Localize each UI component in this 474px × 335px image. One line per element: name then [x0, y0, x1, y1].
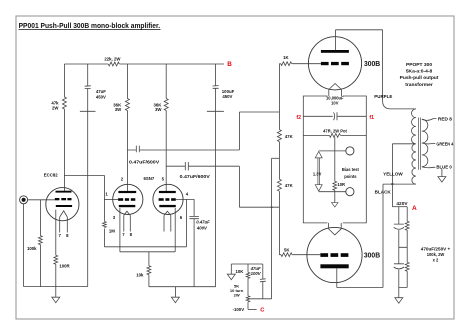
capacitor 0.47uF/600V no.2: [185, 162, 188, 170]
resistor 22k 2W: [108, 62, 119, 66]
svg-text:450V: 450V: [96, 94, 106, 99]
wire secondary ground drop: [441, 169, 443, 177]
anode bar V4: [320, 264, 348, 268]
svg-text:points: points: [344, 174, 357, 179]
svg-text:47R, 2W Pot: 47R, 2W Pot: [323, 128, 347, 133]
pin 8 V1: [66, 217, 68, 233]
svg-text:420V: 420V: [396, 201, 407, 206]
wire ECC82 anode to 47k and grid no.1: [64, 174, 104, 176]
svg-text:BLACK: BLACK: [375, 189, 392, 194]
junction primary bottom: [391, 183, 393, 185]
wire coupling no.1 riser: [239, 112, 279, 150]
primary winding: [412, 109, 416, 184]
anode bar V2a: [118, 191, 136, 193]
pin 7 V2a: [123, 215, 125, 231]
svg-text:0.47uF/600V: 0.47uF/600V: [180, 174, 210, 179]
svg-text:PURPLE: PURPLE: [374, 94, 392, 99]
junction bias crossing: [271, 206, 273, 208]
svg-text:10R: 10R: [338, 182, 346, 187]
ground wiper: [332, 203, 339, 208]
tube 6SN7 section 1 V2a: [113, 184, 143, 214]
cathode bar V2b: [159, 205, 176, 207]
resistor 5K grid stopper: [279, 254, 320, 256]
wire bias riser: [271, 158, 273, 298]
grid dashes V2a: [118, 198, 123, 201]
svg-text:5K: 5K: [284, 247, 290, 252]
tap blue 0: [422, 167, 435, 168]
test point lower: [346, 188, 354, 196]
svg-text:300B: 300B: [364, 59, 380, 68]
svg-text:100V: 100V: [251, 271, 262, 276]
svg-text:f1: f1: [369, 115, 374, 121]
svg-text:1M: 1M: [109, 228, 115, 233]
ground center: [171, 297, 179, 303]
wire coupling no.2 dropper: [239, 166, 279, 207]
capacitor 47uF 450V: [80, 86, 96, 112]
svg-text:10K: 10K: [236, 269, 245, 274]
svg-text:10k: 10k: [136, 272, 144, 277]
svg-text:47K: 47K: [285, 134, 294, 139]
grid dashes V4: [320, 253, 328, 257]
wire grid no.1: [104, 198, 118, 200]
wire 36K no.2 branch vertical: [165, 64, 167, 191]
svg-text:0.47uF/600V: 0.47uF/600V: [129, 160, 159, 165]
resistor 100R: [54, 255, 58, 264]
pin stub V2b right: [170, 215, 172, 231]
wire ground bus left: [24, 286, 88, 288]
svg-text:100k, 2W: 100k, 2W: [427, 252, 445, 257]
resistor 100k 2W lower: [405, 262, 409, 271]
svg-text:BLUE 0: BLUE 0: [436, 165, 452, 170]
anode bar V1: [56, 191, 72, 193]
wire coupling no.2: [166, 165, 239, 167]
svg-text:450V: 450V: [222, 94, 232, 99]
ground secondary: [438, 177, 446, 183]
cathode bar V1: [56, 205, 72, 207]
tube 300B lower V4: [307, 227, 362, 282]
grid dashes V1: [55, 198, 60, 200]
wire 100uF branch vertical: [215, 64, 217, 287]
svg-text:PPOPT 300: PPOPT 300: [406, 62, 432, 68]
svg-text:Bias test: Bias test: [342, 167, 360, 172]
resistor 47K upper: [277, 130, 281, 142]
svg-text:6SN7: 6SN7: [144, 176, 155, 181]
wire test point lower: [319, 191, 346, 193]
resistor 100k: [39, 200, 41, 287]
anode bar V2b: [159, 191, 176, 193]
node C -100V: [248, 308, 257, 310]
wire B+ top rail: [64, 63, 224, 65]
wire ground drop center: [174, 287, 176, 297]
filament supply box: [303, 96, 366, 223]
wire cathode pin 6 drop: [174, 208, 176, 252]
wire black primary bottom: [383, 183, 416, 185]
wire input to ECC82 grid: [28, 199, 55, 201]
wire grid pin 4: [176, 198, 194, 200]
potentiometer 5K 10 turn 2W: [246, 296, 250, 302]
svg-text:3W: 3W: [155, 107, 162, 112]
pin 8 V2a: [129, 215, 131, 231]
resistor 1K grid stopper: [279, 63, 321, 65]
wire ECC82 cathode drop: [55, 210, 57, 297]
grid dashes V3: [321, 62, 329, 65]
svg-text:47K: 47K: [285, 183, 294, 188]
resistor 10k: [147, 266, 151, 275]
bias supply top wire: [231, 263, 262, 265]
heater V1: [60, 211, 68, 217]
cathode bar V2a: [119, 205, 136, 207]
svg-text:0.47uF: 0.47uF: [196, 219, 210, 224]
wire pot wiper drop: [334, 137, 336, 202]
wire anode V4 drop: [337, 184, 383, 287]
wire 47uF branch vertical: [87, 64, 89, 287]
anode bar V3: [321, 50, 349, 53]
resistor 10R: [333, 181, 337, 190]
secondary winding: [422, 119, 428, 166]
svg-text:2W: 2W: [52, 105, 59, 110]
svg-text:PP001 Push-Pull 300B mono-bloc: PP001 Push-Pull 300B mono-block amplifie…: [19, 21, 161, 30]
svg-text:A: A: [412, 205, 417, 212]
svg-text:YELLOW: YELLOW: [383, 171, 403, 176]
filament V3: [329, 84, 342, 90]
wire bias stub: [272, 157, 280, 159]
capacitor 470uF/250V upper: [394, 224, 404, 229]
wire psu resistor rail: [406, 207, 408, 288]
test point upper: [346, 147, 354, 155]
pin 7 V1: [59, 217, 61, 233]
wire grid leak chain vertical: [278, 64, 280, 255]
grid dashes V2b: [159, 198, 164, 201]
svg-text:470uF/250V +: 470uF/250V +: [421, 247, 451, 252]
wire ground bus center: [149, 286, 216, 288]
svg-text:2W: 2W: [234, 293, 240, 298]
svg-text:transformer: transformer: [405, 82, 433, 88]
wire test point upper: [319, 150, 346, 152]
wire 1M to grid no.2 bus: [104, 246, 186, 248]
svg-text:Push-pull output: Push-pull output: [400, 75, 439, 81]
resistor 36K 3W no.1: [125, 99, 129, 111]
wire cathode bus to 10k: [148, 252, 150, 266]
svg-text:RED 8: RED 8: [438, 116, 453, 121]
wire anode V3 riser: [336, 30, 383, 51]
resistor 47K lower: [277, 179, 281, 191]
tap red 8: [422, 119, 437, 121]
wire grid no.2 dc feed: [186, 199, 188, 247]
svg-text:f2: f2: [296, 115, 301, 121]
node A 420V: [392, 206, 407, 208]
heater V2a: [124, 211, 131, 215]
capacitor 0.47uF/600V no.1: [136, 146, 139, 153]
svg-text:300B: 300B: [364, 250, 380, 259]
core: [419, 118, 421, 170]
wire coupling no.1: [127, 149, 239, 151]
measurement arrow 1.3V: [318, 158, 320, 186]
svg-text:100R: 100R: [59, 263, 70, 268]
capacitor 470uF/250V lower: [394, 264, 404, 269]
svg-text:1.3V: 1.3V: [313, 172, 322, 177]
capacitor 100uF 450V: [207, 86, 224, 112]
resistor 100k 2W upper: [405, 221, 409, 230]
wire bias wiper bus: [248, 298, 272, 300]
svg-text:B: B: [227, 61, 232, 68]
tube ECC82 V1: [46, 188, 79, 221]
tap green 4: [422, 143, 435, 144]
svg-text:GREEN 4: GREEN 4: [436, 141, 454, 146]
ground psu: [395, 298, 403, 304]
svg-text:100k: 100k: [27, 246, 37, 251]
capacitor 0.47uF 400V: [189, 199, 199, 287]
filament V4: [329, 229, 342, 235]
svg-text:22k, 2W: 22k, 2W: [104, 56, 121, 61]
ground ECC82 cathode: [52, 297, 60, 303]
resistor 36K 3W no.2: [164, 99, 168, 111]
wire yellow centre tap: [392, 144, 415, 207]
wire filament V3 stubs: [329, 90, 342, 97]
wire filament V4 stubs: [329, 223, 342, 229]
svg-text:1K: 1K: [283, 55, 289, 60]
ground bias: [227, 274, 235, 280]
pin stub V2b left: [163, 215, 165, 231]
svg-text:3W: 3W: [115, 107, 122, 112]
wire psu cap rail: [398, 207, 400, 298]
wire purple primary top: [383, 30, 416, 109]
svg-text:400V: 400V: [196, 226, 208, 231]
wire jack ground drop: [23, 204, 25, 287]
wire grid feed no.1 vertical: [103, 175, 105, 246]
input jack J1: [20, 196, 28, 204]
resistor 47k 2W: [62, 97, 66, 109]
wire 47k branch vertical: [63, 64, 65, 192]
wire cathode bus: [120, 251, 175, 253]
wire cathode pin 3 drop: [119, 208, 121, 252]
svg-text:ECC82: ECC82: [44, 172, 58, 177]
heater V2b: [164, 211, 171, 215]
wire psu rungs: [399, 247, 407, 287]
tube 300B upper V3: [308, 37, 361, 90]
resistor 1M: [103, 222, 107, 228]
svg-text:10V: 10V: [331, 100, 339, 105]
svg-text:x 2: x 2: [433, 258, 439, 263]
wire bias ground stub: [230, 264, 232, 274]
wire 36K no.1 branch vertical: [126, 64, 128, 191]
tube 6SN7 section 2 V2b: [153, 184, 183, 214]
svg-text:-100V: -100V: [233, 307, 245, 312]
svg-text:5Ka-a:0-4-8: 5Ka-a:0-4-8: [406, 69, 433, 75]
